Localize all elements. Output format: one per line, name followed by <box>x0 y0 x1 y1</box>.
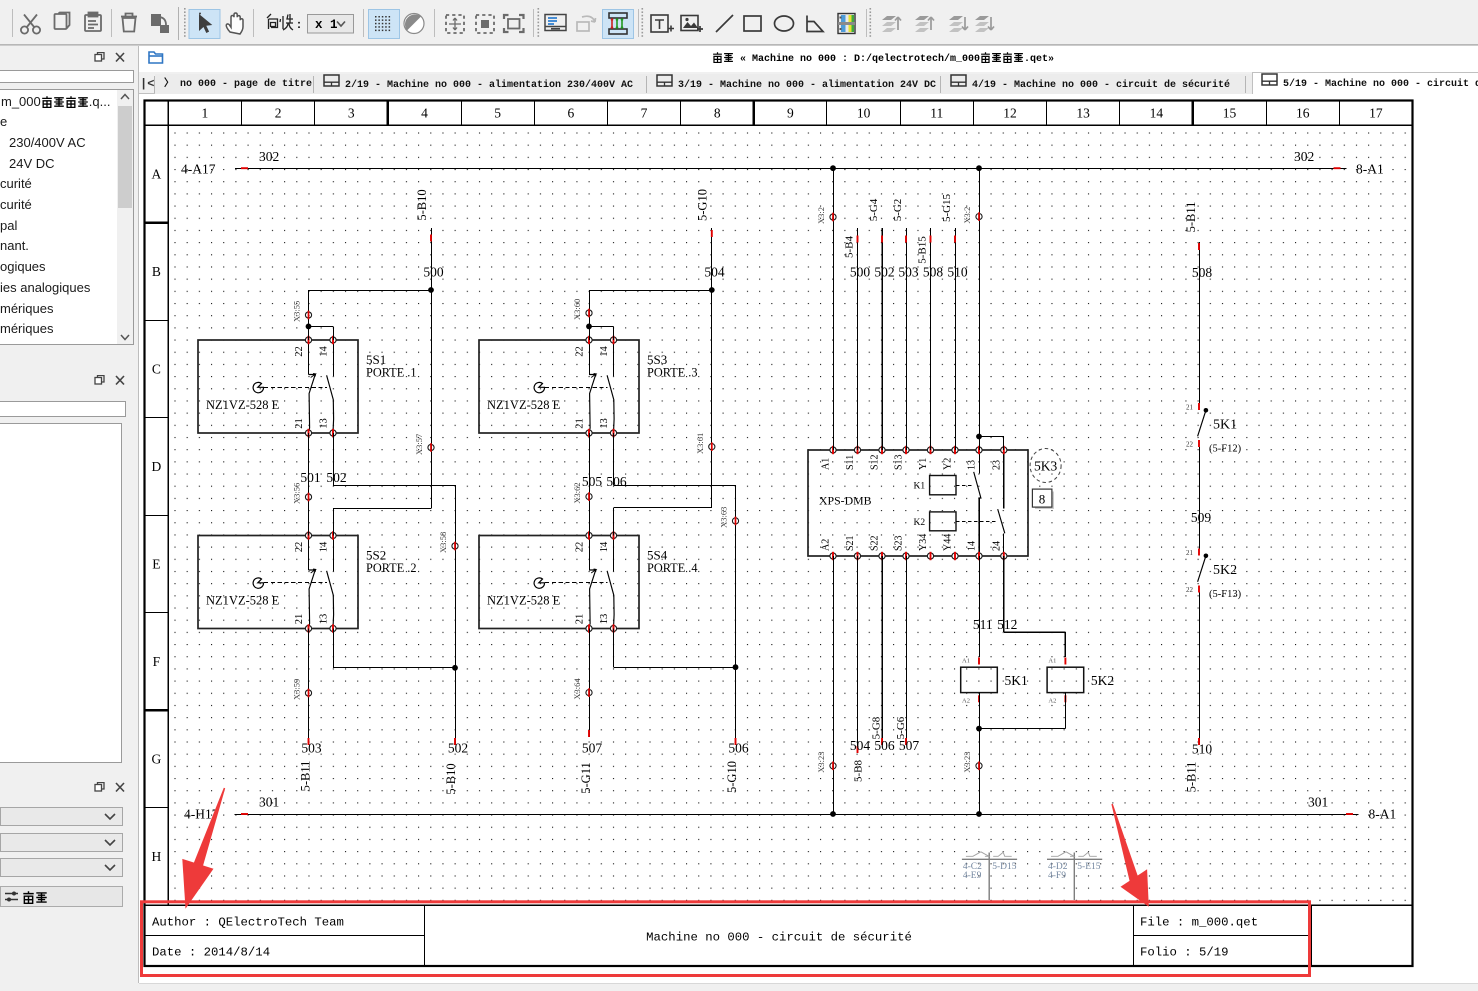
relay coil 5K1 <box>961 658 1028 705</box>
svg-text:4: 4 <box>421 106 428 121</box>
svg-text:503: 503 <box>898 265 919 280</box>
XPS pin 13 <box>976 447 982 453</box>
svg-text:X3:2: X3:2 <box>816 207 826 224</box>
svg-text:Y44: Y44 <box>943 534 954 551</box>
svg-text:5-G10: 5-G10 <box>725 761 739 793</box>
XPS pin S13 <box>903 447 909 453</box>
svg-text:8-A1: 8-A1 <box>1356 162 1384 177</box>
svg-text:5K2: 5K2 <box>1213 563 1237 578</box>
5S1 contact 14-13 <box>333 340 335 376</box>
XPS pin 24 <box>1001 553 1007 559</box>
left dock panels <box>0 46 138 991</box>
undo/selection panel <box>92 782 126 793</box>
5S3 contact 14-13 <box>613 340 615 376</box>
svg-text:X3:59: X3:59 <box>292 679 302 700</box>
svg-text:10: 10 <box>857 106 871 121</box>
svg-text:E: E <box>152 557 160 572</box>
svg-text:5-G2: 5-G2 <box>892 199 904 222</box>
XPS internal contact 23-24 <box>1003 450 1005 509</box>
svg-text:(5-F12): (5-F12) <box>1209 444 1242 455</box>
svg-text:13: 13 <box>967 460 978 470</box>
wire 509 <box>1199 447 1201 549</box>
svg-text:512: 512 <box>997 617 1017 632</box>
terminal X3:57 <box>428 444 434 450</box>
svg-text:S23: S23 <box>894 535 905 551</box>
svg-text:XPS-DMB: XPS-DMB <box>819 494 872 508</box>
svg-text:14: 14 <box>967 541 978 551</box>
svg-text:14: 14 <box>319 541 330 552</box>
svg-text:2: 2 <box>275 106 282 121</box>
wire 510 <box>1199 593 1201 746</box>
wire 508 <box>1199 242 1201 403</box>
svg-text:302: 302 <box>259 149 279 164</box>
wire 501 (5S1.21 to 5S2.22) <box>308 433 310 536</box>
terminal X3:62 <box>586 494 592 500</box>
svg-text:501: 501 <box>300 470 320 485</box>
5S2 contact 22-21 <box>308 536 310 571</box>
svg-text::: : <box>297 17 301 31</box>
junction 502 <box>452 665 458 671</box>
svg-text:5K1: 5K1 <box>1005 673 1028 688</box>
K1 linkage dashed <box>956 485 973 487</box>
svg-text:507: 507 <box>582 741 603 756</box>
wire to 5S1 top <box>309 290 432 292</box>
svg-text:K1: K1 <box>914 482 926 492</box>
wire A1 drop from 302 <box>830 165 836 171</box>
svg-text:22: 22 <box>1186 441 1194 449</box>
svg-text:5-D15: 5-D15 <box>992 862 1017 872</box>
svg-text:3: 3 <box>348 106 355 121</box>
svg-text:C: C <box>152 361 161 376</box>
svg-text:5K1: 5K1 <box>1213 418 1237 433</box>
wire junction to 5S1 pin 14 <box>309 326 334 328</box>
project window title row <box>139 46 1478 72</box>
annotation: red arrow left <box>194 788 226 867</box>
svg-text:PORTE .4: PORTE .4 <box>647 561 698 575</box>
svg-text:5: 5 <box>494 106 501 121</box>
svg-text:302: 302 <box>1294 149 1314 164</box>
5S2 cam actuator <box>253 578 263 588</box>
wire 512 from pin 24 to 5K2 <box>1003 556 1005 632</box>
XPS pin S22 <box>879 553 885 559</box>
svg-text:505: 505 <box>582 474 603 489</box>
svg-text:15: 15 <box>1223 106 1237 121</box>
terminal X3:59 <box>305 690 311 696</box>
svg-text:8-A1: 8-A1 <box>1369 807 1397 822</box>
XPS pin S23 <box>903 553 909 559</box>
svg-text:21: 21 <box>1186 549 1194 557</box>
svg-text:PORTE .2: PORTE .2 <box>366 561 417 575</box>
selection tool (checked) <box>189 10 220 39</box>
svg-text:File : m_000.qet: File : m_000.qet <box>1140 916 1258 930</box>
svg-text:5-B11: 5-B11 <box>1185 762 1199 793</box>
XPS pin A2 <box>830 553 836 559</box>
junction above 5S3 <box>586 324 592 330</box>
svg-text:S13: S13 <box>894 454 905 470</box>
svg-text:5-G10: 5-G10 <box>696 189 710 221</box>
svg-text:5-B4: 5-B4 <box>844 236 856 259</box>
svg-text:13: 13 <box>319 418 330 429</box>
XPS pin Y2 <box>952 447 958 453</box>
svg-text:X3:55: X3:55 <box>292 301 302 322</box>
svg-text:Y2: Y2 <box>943 458 954 470</box>
column header row <box>145 124 1413 126</box>
wire 302 top bus <box>235 168 1347 170</box>
door switch 5S4 PORTE .4 <box>479 531 698 632</box>
svg-text:A2: A2 <box>1048 698 1056 705</box>
XPS pin Y1 <box>927 447 933 453</box>
junction 506 <box>733 664 739 670</box>
cross-reference table 5K2 <box>1047 852 1102 900</box>
elements panel <box>92 375 126 386</box>
svg-text:Author : QElectroTech Team: Author : QElectroTech Team <box>152 916 344 930</box>
wire stub 506 from S22 <box>881 556 883 745</box>
wire to 5S3 top <box>589 290 712 292</box>
5K3 linked-element ellipse <box>1030 449 1061 483</box>
XPS internal contact 13-14 <box>979 450 981 473</box>
junction 504 <box>709 287 715 293</box>
svg-text:H: H <box>152 849 162 864</box>
svg-text:5-G6: 5-G6 <box>895 716 907 739</box>
svg-text:5-B10: 5-B10 <box>444 763 458 794</box>
svg-text:PORTE .3: PORTE .3 <box>647 366 698 380</box>
wire 502 from 5S2.13 <box>333 629 335 668</box>
svg-text:502: 502 <box>874 265 894 280</box>
svg-text:X3:57: X3:57 <box>414 434 424 455</box>
svg-text:511: 511 <box>973 617 993 632</box>
svg-text:Folio : 5/19: Folio : 5/19 <box>1140 946 1229 960</box>
5S1 mechanical linkage <box>264 387 327 389</box>
svg-text:21: 21 <box>294 418 305 429</box>
svg-text:21: 21 <box>1186 404 1194 412</box>
svg-text:8: 8 <box>714 106 721 121</box>
5S3 contact 22-21 <box>589 340 591 375</box>
svg-text:13: 13 <box>1076 106 1090 121</box>
folio link badge 8 <box>1035 492 1054 510</box>
terminal X3:23 <box>830 763 836 769</box>
svg-text:502: 502 <box>326 470 346 485</box>
door switch 5S2 PORTE .2 <box>198 531 417 632</box>
svg-text:21: 21 <box>294 614 305 625</box>
svg-text:A1: A1 <box>1048 658 1056 665</box>
wire 500 vertical (5-B10 feeder) <box>431 228 433 508</box>
svg-text:A2: A2 <box>821 539 832 551</box>
5S1 cam actuator <box>253 382 263 392</box>
svg-text:5-B11: 5-B11 <box>1184 202 1198 233</box>
5S1 contact 22-21 <box>308 340 310 375</box>
svg-text:NZ1VZ-528 E: NZ1VZ-528 E <box>487 594 561 608</box>
svg-text:5K2: 5K2 <box>1091 673 1114 688</box>
svg-text:506: 506 <box>728 741 749 756</box>
folio tab bar <box>137 72 1478 94</box>
wire 504 vertical (5-G10 feeder) <box>711 228 713 508</box>
svg-text:16: 16 <box>1296 106 1310 121</box>
svg-text:S21: S21 <box>845 535 856 551</box>
XPS pin A1 <box>830 447 836 453</box>
annotation: red arrow right <box>1111 804 1138 881</box>
svg-text:X3:64: X3:64 <box>572 678 582 700</box>
svg-text:22: 22 <box>575 346 586 357</box>
svg-text:4-F9: 4-F9 <box>1048 871 1066 881</box>
svg-text:A2: A2 <box>962 698 970 705</box>
zoom combo <box>308 15 354 34</box>
svg-text:9: 9 <box>787 106 794 121</box>
terminal X3:2 <box>976 214 982 220</box>
svg-text:X3:62: X3:62 <box>572 482 582 503</box>
wire stub 508 to XPS <box>930 228 932 450</box>
wire stub 503 to XPS <box>906 228 908 450</box>
terminal X3:55 <box>305 312 311 318</box>
5S4 contact 14-13 <box>613 536 615 572</box>
svg-text:5-B10: 5-B10 <box>415 189 429 220</box>
svg-text:Y34: Y34 <box>918 534 929 551</box>
svg-text:X3:60: X3:60 <box>572 299 582 320</box>
svg-text:K2: K2 <box>914 518 926 528</box>
svg-text:14: 14 <box>1150 106 1164 121</box>
svg-text:A: A <box>152 166 162 181</box>
svg-text:S11: S11 <box>845 455 856 470</box>
relay coil 5K2 <box>1047 658 1114 705</box>
svg-text:14: 14 <box>599 346 610 357</box>
svg-text:S12: S12 <box>870 454 881 470</box>
svg-text:506: 506 <box>606 474 627 489</box>
wire 301 bottom bus <box>234 814 1358 816</box>
wire A2 to 301 <box>833 556 835 814</box>
svg-text:F: F <box>153 654 161 669</box>
svg-text:NZ1VZ-528 E: NZ1VZ-528 E <box>206 398 280 412</box>
XPS pin S11 <box>854 447 860 453</box>
XPS internal coil K2 <box>930 512 956 531</box>
terminal X3:2 <box>830 214 836 220</box>
5S3 mechanical linkage <box>545 387 608 389</box>
svg-text:22: 22 <box>294 346 305 357</box>
svg-text:13: 13 <box>319 614 330 625</box>
svg-text:B: B <box>152 264 161 279</box>
svg-text:1: 1 <box>202 106 209 121</box>
wire 13/23 drop from 302 <box>976 165 982 171</box>
junction coils <box>976 726 982 732</box>
wire stub 510 to XPS <box>955 228 957 450</box>
svg-text:5-G11: 5-G11 <box>579 762 593 793</box>
wire 505 (5S3.21 to 5S4.22) <box>589 433 591 536</box>
svg-text:510: 510 <box>947 265 968 280</box>
svg-text:509: 509 <box>1191 510 1212 525</box>
svg-text:NZ1VZ-528 E: NZ1VZ-528 E <box>206 594 280 608</box>
svg-text:503: 503 <box>301 741 322 756</box>
wire 506 from 5S4.13 <box>613 629 615 668</box>
terminal X3:63 <box>732 518 738 524</box>
svg-text:NZ1VZ-528 E: NZ1VZ-528 E <box>487 398 561 412</box>
junction 13/23 <box>976 434 982 440</box>
terminal X3:58 <box>452 543 458 549</box>
wire stub 502 to XPS <box>881 228 883 450</box>
contact 5K2 (NC) <box>1186 549 1242 601</box>
door switch 5S3 PORTE .3 <box>479 336 698 437</box>
terminal X3:23 <box>976 763 982 769</box>
wire stub 507 from S23 <box>906 556 908 745</box>
5S4 mechanical linkage <box>545 582 608 584</box>
svg-text:14: 14 <box>599 541 610 552</box>
safety relay U1 XPS-DMB <box>808 446 1028 560</box>
svg-text:21: 21 <box>575 418 586 429</box>
cross-reference table 5K1 <box>962 852 1017 900</box>
svg-text:504: 504 <box>704 265 725 280</box>
5S2 contact 14-13 <box>333 536 335 572</box>
wire 5K1.A2 to 301 <box>979 693 981 814</box>
svg-text:X3:58: X3:58 <box>438 532 448 553</box>
svg-text:5-G8: 5-G8 <box>871 716 883 739</box>
svg-text:500: 500 <box>850 265 871 280</box>
wire stub 504 from S21 <box>857 556 859 753</box>
svg-text:5-B11: 5-B11 <box>299 761 313 792</box>
svg-text:5-G4: 5-G4 <box>868 198 880 221</box>
svg-text:23: 23 <box>991 460 1002 470</box>
svg-text:x 1: x 1 <box>315 18 338 32</box>
grid toggle (checked) <box>369 10 400 39</box>
svg-text:5K3: 5K3 <box>1034 459 1057 474</box>
svg-text:12: 12 <box>1003 106 1017 121</box>
svg-text:22: 22 <box>575 542 586 553</box>
svg-text:5-G15: 5-G15 <box>941 193 953 222</box>
svg-text:5-B8: 5-B8 <box>853 760 865 783</box>
svg-text:X3:63: X3:63 <box>719 507 729 528</box>
svg-text:504: 504 <box>850 738 871 753</box>
svg-text:21: 21 <box>575 614 586 625</box>
K2 linkage dashed <box>956 521 997 523</box>
svg-text:17: 17 <box>1369 106 1383 121</box>
title block <box>145 935 425 937</box>
svg-text:4-E9: 4-E9 <box>963 871 982 881</box>
svg-text:S22: S22 <box>870 535 881 551</box>
svg-text:X3:56: X3:56 <box>292 483 302 504</box>
add conductor (checked) <box>603 10 634 39</box>
main toolbar <box>0 0 1478 46</box>
terminal X3:64 <box>586 690 592 696</box>
zoom label 句柄: <box>267 14 293 30</box>
XPS pin 14 <box>976 553 982 559</box>
svg-text:X3:61: X3:61 <box>695 433 705 454</box>
5S3 cam actuator <box>534 382 544 392</box>
wire 507 from 5S4.21 <box>589 629 591 738</box>
svg-text:22: 22 <box>294 542 305 553</box>
XPS internal coil K1 <box>930 476 956 495</box>
drawing frame border <box>145 101 1413 967</box>
annotation: red rectangle around title block <box>142 902 1310 976</box>
svg-text:13: 13 <box>599 614 610 625</box>
svg-text:5-E15: 5-E15 <box>1077 862 1100 872</box>
XPS pin Y34 <box>927 553 933 559</box>
svg-text:(5-F13): (5-F13) <box>1209 589 1242 600</box>
wire stub 500 to XPS <box>857 228 859 450</box>
svg-text:5-B15: 5-B15 <box>917 236 929 264</box>
XPS pin S21 <box>854 553 860 559</box>
svg-text:8: 8 <box>1039 492 1046 507</box>
svg-text:14: 14 <box>319 346 330 357</box>
svg-text:301: 301 <box>1308 795 1328 810</box>
svg-text:301: 301 <box>259 795 279 810</box>
svg-text:Y1: Y1 <box>918 458 929 470</box>
wire 511 from pin 14 to 5K1 <box>979 556 981 657</box>
wire 5K2.A2 to junction <box>1065 693 1067 729</box>
svg-text:PORTE .1: PORTE .1 <box>366 366 417 380</box>
svg-text:500: 500 <box>423 265 444 280</box>
svg-text:A1: A1 <box>962 658 970 665</box>
svg-text:7: 7 <box>641 106 648 121</box>
junction 500 <box>428 287 434 293</box>
svg-text:G: G <box>152 752 162 767</box>
row letter column <box>145 221 169 224</box>
svg-text:502: 502 <box>448 741 468 756</box>
svg-text:6: 6 <box>567 106 574 121</box>
terminal X3:56 <box>305 494 311 500</box>
svg-text:11: 11 <box>930 106 943 121</box>
5S2 mechanical linkage <box>264 582 327 584</box>
svg-text:510: 510 <box>1192 742 1213 757</box>
junction above 5S1 <box>306 324 312 330</box>
XPS pin 23 <box>1001 447 1007 453</box>
svg-text:22: 22 <box>1186 586 1194 594</box>
door switch 5S1 PORTE .1 <box>198 336 417 437</box>
XPS pin S12 <box>879 447 885 453</box>
XPS pin Y44 <box>952 553 958 559</box>
svg-text:4-A17: 4-A17 <box>181 162 216 177</box>
contact 5K1 (NC) <box>1186 403 1242 455</box>
wire 503 from 5S2.21 <box>308 629 310 746</box>
svg-text:13: 13 <box>599 418 610 429</box>
svg-text:X3:23: X3:23 <box>816 752 826 773</box>
svg-text:X3:23: X3:23 <box>962 752 972 773</box>
svg-text:Date : 2014/8/14: Date : 2014/8/14 <box>152 946 270 960</box>
terminal X3:60 <box>586 310 592 316</box>
svg-text:508: 508 <box>923 265 944 280</box>
5S4 cam actuator <box>534 578 544 588</box>
svg-text:D: D <box>152 459 162 474</box>
svg-text:24: 24 <box>991 541 1002 551</box>
5S4 contact 22-21 <box>589 536 591 571</box>
svg-text:508: 508 <box>1192 265 1213 280</box>
svg-text:A1: A1 <box>821 458 832 470</box>
project panel <box>92 52 126 63</box>
svg-text:Machine no 000 - circuit de sé: Machine no 000 - circuit de sécurité <box>646 931 912 945</box>
terminal X3:61 <box>709 444 715 450</box>
svg-text:X3:2: X3:2 <box>962 207 972 224</box>
